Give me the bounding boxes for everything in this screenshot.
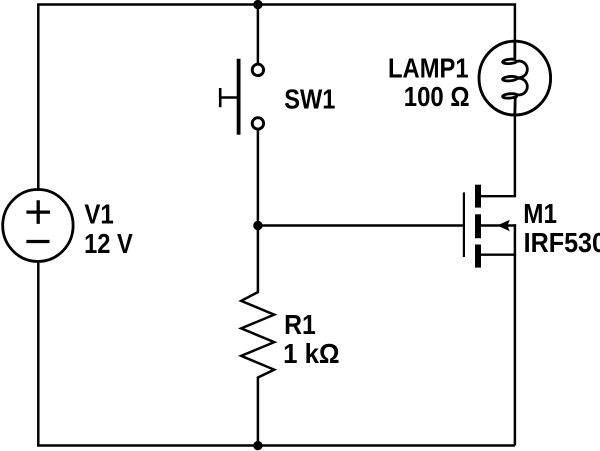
M1 channel dash bottom [475, 245, 481, 268]
M1 source lead [478, 253, 516, 255]
junction dot gate node [253, 221, 262, 230]
svg-text:V1: V1 [84, 199, 113, 230]
M1 channel dash middle [475, 214, 481, 238]
M1 drain lead [479, 195, 516, 197]
SW1 actuator bar [237, 59, 241, 135]
junction dot bottom node [253, 441, 262, 450]
svg-text:R1: R1 [284, 309, 316, 340]
junction dot top node [253, 0, 262, 9]
wire switch top branch [257, 5, 260, 67]
SW1 bottom contact circle [252, 118, 263, 129]
wire mosfet source vertical down to bottom rail [514, 224, 517, 445]
svg-text:12 V: 12 V [84, 228, 133, 259]
lamp LAMP1 [479, 41, 551, 116]
voltage source V1 [3, 190, 73, 262]
wire switch bottom to gate node [257, 127, 260, 226]
M1 channel dash top [475, 185, 481, 208]
svg-text:IRF530: IRF530 [524, 227, 600, 258]
mosfet M1 [464, 185, 516, 268]
svg-text:100 Ω: 100 Ω [404, 81, 470, 112]
svg-text:SW1: SW1 [284, 84, 335, 115]
switch SW1 [220, 59, 263, 135]
svg-text:LAMP1: LAMP1 [388, 53, 469, 84]
wire bottom-left loop: left rail lower + bottom rail [38, 257, 515, 446]
SW1 end cap bar [219, 88, 222, 107]
LAMP1 filament coil [503, 41, 528, 116]
svg-text:M1: M1 [523, 198, 557, 229]
V1 plus sign [26, 200, 50, 224]
wire lamp bottom to mosfet drain [514, 112, 517, 196]
wire gate node to mosfet gate [258, 224, 463, 227]
wire top-left loop: left rail upper + top rail + right rail upper [38, 5, 515, 195]
V1 minus sign [26, 240, 49, 243]
M1 body lead [481, 224, 516, 226]
SW1 stem [220, 96, 237, 99]
M1 body arrow [497, 220, 510, 232]
M1 gate line [463, 192, 465, 257]
svg-text:1 kΩ: 1 kΩ [283, 338, 340, 369]
SW1 top contact circle [252, 64, 263, 75]
resistor R1 [241, 226, 274, 446]
